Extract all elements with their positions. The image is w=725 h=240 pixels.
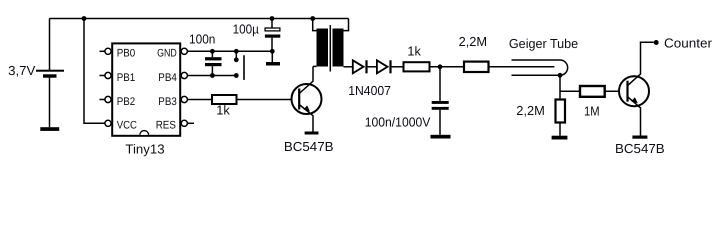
wire cathode down: [559, 75, 561, 99]
ground bar Q1: [305, 132, 319, 135]
svg-text:PB0: PB0: [117, 48, 136, 60]
node junction HV: [438, 64, 443, 69]
node junction rail/100u: [270, 16, 275, 21]
switch S1 pushbutton: [234, 51, 244, 80]
svg-text:Tiny13: Tiny13: [125, 141, 164, 156]
svg-text:1N4007: 1N4007: [348, 83, 391, 98]
capacitor C1 100n: [189, 31, 222, 75]
emitter with arrow: [628, 97, 641, 136]
transistor Q1 BC547B: [284, 66, 334, 153]
wire battery positive to top rail: [49, 19, 51, 71]
IC U1 Tiny13: [112, 43, 180, 156]
secondary winding: [333, 29, 344, 67]
svg-text:Counter: Counter: [664, 35, 713, 50]
ground bar Q2: [632, 136, 647, 139]
wire R4 to ground: [559, 123, 561, 136]
capacitor C2 100u electrolytic: [233, 19, 281, 52]
svg-text:100n: 100n: [189, 31, 215, 46]
svg-text:100µ: 100µ: [233, 22, 260, 37]
ground bar C3: [431, 135, 451, 139]
node junction PB4/100n: [210, 73, 215, 78]
svg-text:100n/1000V: 100n/1000V: [365, 115, 431, 130]
node terminal Counter: [654, 40, 659, 45]
capacitor C3 100n/1000V: [365, 67, 451, 139]
svg-text:3,7V: 3,7V: [8, 63, 36, 78]
resistor R3 2,2M: [459, 34, 489, 72]
wire anode to tube: [489, 66, 555, 68]
core: [329, 25, 331, 72]
svg-text:BC547B: BC547B: [284, 139, 334, 154]
svg-text:RES: RES: [156, 120, 176, 132]
resistor R1 1k: [212, 95, 237, 117]
node junction GND/100n: [210, 49, 215, 54]
svg-text:BC547B: BC547B: [615, 141, 665, 156]
collector: [299, 66, 313, 93]
battery B1 3,7V: [8, 19, 64, 131]
node junction tube cathode: [558, 73, 563, 78]
pin RES: [156, 120, 194, 132]
svg-text:VCC: VCC: [117, 120, 137, 132]
battery plate negative (short thick): [43, 74, 57, 77]
svg-text:1M: 1M: [584, 103, 600, 118]
IC body: [112, 43, 180, 135]
ground bar R4: [552, 136, 568, 140]
diode D2 1N4007: [348, 60, 391, 98]
wire primary bottom to Q1 collector: [313, 65, 317, 67]
svg-text:2,2M: 2,2M: [516, 103, 545, 118]
wire R2 to node: [430, 66, 465, 68]
ground bar near 100u: [266, 62, 280, 66]
wire 100u bottom to ground: [271, 51, 273, 62]
diode D1 1N4007: [353, 60, 368, 73]
svg-text:PB1: PB1: [117, 72, 136, 84]
wire PB3 to R1: [187, 99, 212, 101]
node junction GND/100u: [270, 49, 275, 54]
pin PB0: [100, 48, 136, 60]
base bar: [626, 81, 628, 102]
wire cathode to R5: [560, 90, 580, 92]
svg-text:GND: GND: [157, 48, 177, 60]
wire secondary top: [344, 19, 349, 31]
svg-text:1k: 1k: [407, 43, 421, 58]
pin PB2: [100, 96, 136, 108]
resistor R5 1M: [580, 86, 605, 118]
emitter with arrow: [299, 105, 313, 132]
node junction rail/VCC: [82, 16, 87, 21]
wire R5 to Q2 base: [605, 90, 628, 92]
wire GND net: [187, 50, 272, 52]
IC notch: [140, 131, 149, 135]
svg-text:PB4: PB4: [158, 72, 177, 84]
Geiger tube GT1: [509, 36, 578, 75]
base bar: [298, 89, 300, 110]
wire battery negative down: [49, 78, 51, 128]
transformer T1: [310, 16, 352, 71]
svg-text:2,2M: 2,2M: [459, 34, 488, 49]
wire D1 to D2: [368, 66, 377, 68]
wire R1 to Q1 base: [237, 99, 300, 101]
battery plate positive (long thin): [36, 70, 64, 72]
pin VCC: [105, 120, 137, 132]
svg-text:Geiger Tube: Geiger Tube: [509, 36, 578, 51]
wire secondary bottom to diodes: [344, 66, 353, 68]
primary winding: [317, 29, 329, 67]
wire primary top: [313, 19, 317, 31]
svg-text:PB3: PB3: [158, 96, 177, 108]
wire top VCC rail: [50, 18, 349, 20]
pin PB1: [100, 72, 136, 84]
pin GND: [157, 48, 187, 60]
resistor R2 1k: [404, 43, 430, 71]
svg-text:1k: 1k: [216, 102, 230, 117]
node junction GND/switch: [234, 49, 239, 54]
ground bar battery: [40, 127, 59, 131]
pin PB3: [158, 96, 187, 108]
collector: [628, 42, 654, 85]
pin PB4: [158, 72, 187, 84]
transistor Q2 BC547B: [615, 42, 665, 156]
node junction rail/primary: [310, 16, 315, 21]
wire VCC drop to IC: [84, 19, 105, 124]
wire PB4 net: [187, 75, 236, 77]
resistor R4 2,2M vertical: [516, 100, 565, 123]
wire D2 to R2: [392, 66, 404, 68]
svg-text:PB2: PB2: [117, 96, 136, 108]
